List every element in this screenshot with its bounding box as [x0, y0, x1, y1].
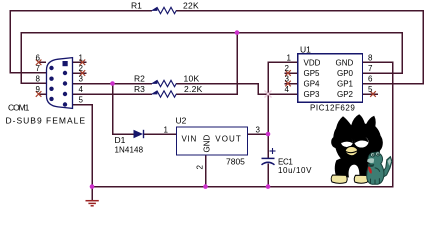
wire U2 GND pin2 down: [205, 155, 207, 187]
svg-text:R2: R2: [134, 74, 145, 84]
connector COM1 D-SUB9 body: [47, 58, 73, 109]
wire node VDD up to U1 pin1: [268, 62, 298, 134]
svg-text:3: 3: [256, 125, 261, 134]
svg-text:1N4148: 1N4148: [115, 146, 144, 155]
left eye white: [341, 137, 353, 147]
dino body: [367, 152, 384, 184]
wire pin9 stub: [38, 93, 46, 95]
svg-text:7: 7: [368, 64, 373, 73]
X u1 pin3: [285, 81, 291, 87]
svg-text:6: 6: [368, 75, 373, 84]
svg-text:4: 4: [79, 85, 84, 94]
wire COM1 pin5 to ground rail: [73, 105, 93, 187]
connector pin dots: [49, 61, 67, 107]
beak crease: [345, 151, 357, 153]
svg-text:D1: D1: [115, 135, 126, 145]
labels U2: [176, 115, 246, 166]
svg-text:6: 6: [36, 53, 41, 62]
svg-text:4: 4: [285, 85, 290, 94]
svg-text:2.2K: 2.2K: [184, 84, 203, 94]
U2 pin names: [182, 134, 242, 152]
resistor R2: [152, 80, 176, 86]
svg-text:8: 8: [368, 53, 373, 62]
white belly arch: [349, 165, 360, 178]
svg-text:VOUT: VOUT: [215, 134, 242, 143]
svg-text:1: 1: [164, 125, 169, 134]
svg-text:1: 1: [79, 53, 84, 62]
left foot: [331, 175, 347, 183]
svg-text:D-SUB9 FEMALE: D-SUB9 FEMALE: [6, 116, 87, 126]
crossover marker at node (268,94): [265, 91, 272, 98]
dino tail wing: [382, 157, 392, 177]
svg-text:2: 2: [79, 64, 84, 73]
node GND rail pin5 junction: [90, 184, 95, 189]
wire pin3 to R2 left: [73, 83, 153, 85]
penguin body: [335, 158, 378, 177]
wire R1 right to GP1 (U1 pin 6): [176, 11, 423, 84]
dino snout patch: [367, 158, 374, 163]
labels: COM1: [6, 103, 87, 126]
beak: [345, 146, 357, 155]
node GND rail EC1 junction: [266, 184, 271, 189]
dino pupils: [372, 154, 374, 156]
wire U1 pin5 stub GP2: [363, 93, 378, 95]
wire D1 cathode to U2 VIN: [144, 133, 177, 135]
svg-text:COM1: COM1: [8, 103, 30, 113]
labels EC1: [278, 157, 312, 174]
wire node TX branch down to D1: [113, 84, 134, 135]
wire second net: COM1 pin8 to GP0 (U1 pin 7): [21, 33, 402, 84]
svg-text:U2: U2: [176, 115, 187, 125]
U1 pin numbers: [285, 53, 374, 94]
svg-text:10K: 10K: [184, 74, 200, 84]
svg-text:GND: GND: [336, 59, 354, 68]
svg-text:GND: GND: [203, 135, 212, 153]
wire pin2 stub: [73, 72, 87, 74]
svg-text:R1: R1: [131, 1, 142, 11]
svg-text:GP3: GP3: [304, 90, 321, 99]
wire U2 VOUT to node VDD: [248, 133, 268, 135]
cartoon character badtz-maru with dino: [331, 114, 392, 184]
dino mouth opening: [368, 163, 375, 167]
svg-text:3: 3: [285, 75, 290, 84]
resistor R3: [152, 91, 176, 97]
wire U1 pin3 stub GP4: [285, 83, 298, 85]
X com1 pin9: [36, 91, 42, 97]
svg-text:10u/10V: 10u/10V: [278, 166, 312, 175]
svg-text:GP4: GP4: [304, 80, 321, 89]
svg-text:GP0: GP0: [337, 69, 354, 78]
node CTS junction: [235, 30, 240, 35]
node TX junction: [110, 81, 115, 86]
X com1 pin6: [36, 60, 42, 66]
ground symbol: [86, 201, 99, 206]
dino tail highlight: [388, 158, 392, 166]
right eye white: [354, 136, 368, 147]
X com1 pin1: [80, 60, 86, 66]
dino leg lines: [371, 178, 380, 184]
resistor R1: [152, 7, 176, 13]
wire pin4 to R3 left: [73, 93, 153, 95]
penguin arm behind dino: [361, 150, 370, 157]
svg-text:22K: 22K: [183, 1, 199, 11]
X u1 pin5: [370, 91, 376, 97]
labels U1: [300, 44, 355, 112]
wire R3 right up to second net: [176, 33, 237, 94]
svg-text:2: 2: [285, 64, 290, 73]
U1 pin names: [304, 59, 354, 100]
wire ground rail: [92, 62, 393, 186]
svg-text:VIN: VIN: [182, 134, 197, 143]
labels D1: [115, 135, 144, 155]
dino eye left: [371, 153, 375, 157]
wire ground stem: [91, 187, 93, 201]
capacitor EC1 plates: [262, 158, 275, 164]
no-connect X marks: [36, 60, 376, 97]
svg-text:7805: 7805: [226, 157, 245, 167]
svg-text:R3: R3: [134, 84, 145, 94]
X com1 pin2: [80, 70, 86, 76]
dino arm claw: [375, 168, 380, 172]
right foot: [354, 175, 368, 183]
capacitor EC1 plus sign: [270, 148, 276, 154]
dino eye right: [376, 152, 380, 156]
svg-text:GP1: GP1: [337, 80, 354, 89]
wire R2 right step down to U1 GP3 pin4: [176, 84, 298, 95]
svg-text:8: 8: [36, 75, 41, 84]
labels: resistors: [131, 1, 203, 94]
U2 pin numbers: [164, 125, 261, 169]
svg-text:5: 5: [79, 96, 84, 105]
svg-text:3: 3: [79, 75, 84, 84]
op-amp U1 PIC12F629 box: [298, 54, 363, 102]
svg-text:GP5: GP5: [304, 69, 321, 78]
wire EC1 top lead: [267, 134, 269, 158]
labels: connector pin numbers: [36, 53, 84, 104]
left eye lid: [341, 136, 353, 143]
wire pin6 stub: [38, 61, 46, 63]
regulator U2 7805 box: [177, 127, 248, 155]
svg-text:2: 2: [196, 165, 205, 170]
svg-text:GP2: GP2: [337, 90, 354, 99]
wire top net: COM1 pin7 to R1 left: [10, 11, 152, 73]
right eye lid: [354, 135, 368, 143]
wire U1 pin2 stub GP5: [285, 72, 298, 74]
diode D1: [134, 130, 144, 138]
svg-text:1: 1: [287, 53, 292, 62]
svg-text:5: 5: [368, 85, 373, 94]
penguin head: [331, 114, 383, 162]
svg-text:7: 7: [36, 64, 41, 73]
node GND rail U2 junction: [203, 184, 208, 189]
dino tongue: [368, 167, 372, 174]
svg-text:U1: U1: [300, 44, 311, 54]
wire EC1 bottom lead: [267, 164, 269, 187]
svg-text:9: 9: [36, 85, 41, 94]
svg-text:PIC12F629: PIC12F629: [310, 104, 355, 113]
wire pin1 stub with X: [73, 61, 87, 63]
svg-text:VDD: VDD: [304, 59, 321, 68]
X u1 pin2: [285, 70, 291, 76]
node VDD junction: [266, 132, 271, 137]
